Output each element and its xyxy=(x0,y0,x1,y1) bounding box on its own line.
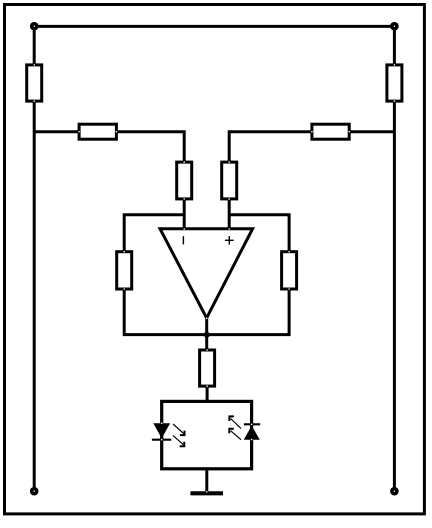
wire: R3 to R5 top xyxy=(116,132,184,162)
wire: R6 to non-inverting input xyxy=(228,199,231,230)
resistor R2 xyxy=(387,64,402,102)
node: top-left terminal xyxy=(30,22,39,31)
op-amp U1 xyxy=(160,228,253,319)
wire: R7 bottom to output node xyxy=(124,290,207,335)
wire: R4 to R6 top xyxy=(229,132,312,162)
LED D1 xyxy=(152,422,185,446)
resistor R7 xyxy=(117,251,132,290)
wire: right rail upper segment xyxy=(393,26,396,65)
LED D2 xyxy=(229,416,260,440)
wire: top supply rail xyxy=(34,25,394,28)
wire: R5 to inverting input xyxy=(183,199,186,230)
resistor R5 xyxy=(177,161,192,199)
wire: R7 top to inverting node xyxy=(124,215,184,252)
resistor R6 xyxy=(222,161,237,199)
wire: ground lead xyxy=(205,468,208,492)
wire: R8 top to non-inverting node xyxy=(229,215,289,252)
wire: right branch from rail to R4 xyxy=(349,130,395,133)
wire: R8 bottom to output node xyxy=(207,290,289,335)
node: bottom-right terminal xyxy=(390,487,399,496)
resistor R1 xyxy=(27,64,42,102)
wire: left rail lower segment xyxy=(33,101,36,491)
wire: left branch from rail to R3 xyxy=(34,130,79,133)
junction at output node xyxy=(204,332,210,338)
LED pair box xyxy=(162,401,252,468)
ground xyxy=(190,491,223,493)
resistor R8 xyxy=(282,251,297,290)
resistor R4 xyxy=(311,124,350,139)
node: bottom-left terminal xyxy=(30,487,39,496)
wire: right rail lower segment xyxy=(393,101,396,491)
wire: op-amp output xyxy=(205,318,208,351)
wire: R9 to LED box xyxy=(206,387,209,403)
node: top-right terminal xyxy=(390,22,399,31)
resistor R9 xyxy=(200,349,215,387)
resistor R3 xyxy=(78,124,117,139)
wire: left rail upper segment xyxy=(33,26,36,65)
